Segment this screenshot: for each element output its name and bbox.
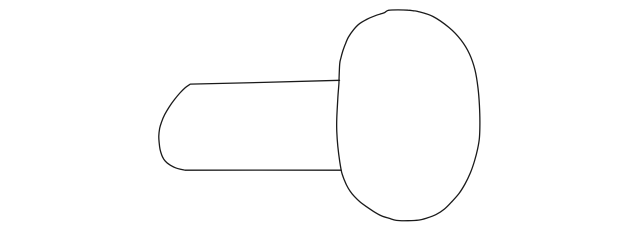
- part stem outline: [159, 80, 341, 170]
- part head outline: [337, 10, 480, 221]
